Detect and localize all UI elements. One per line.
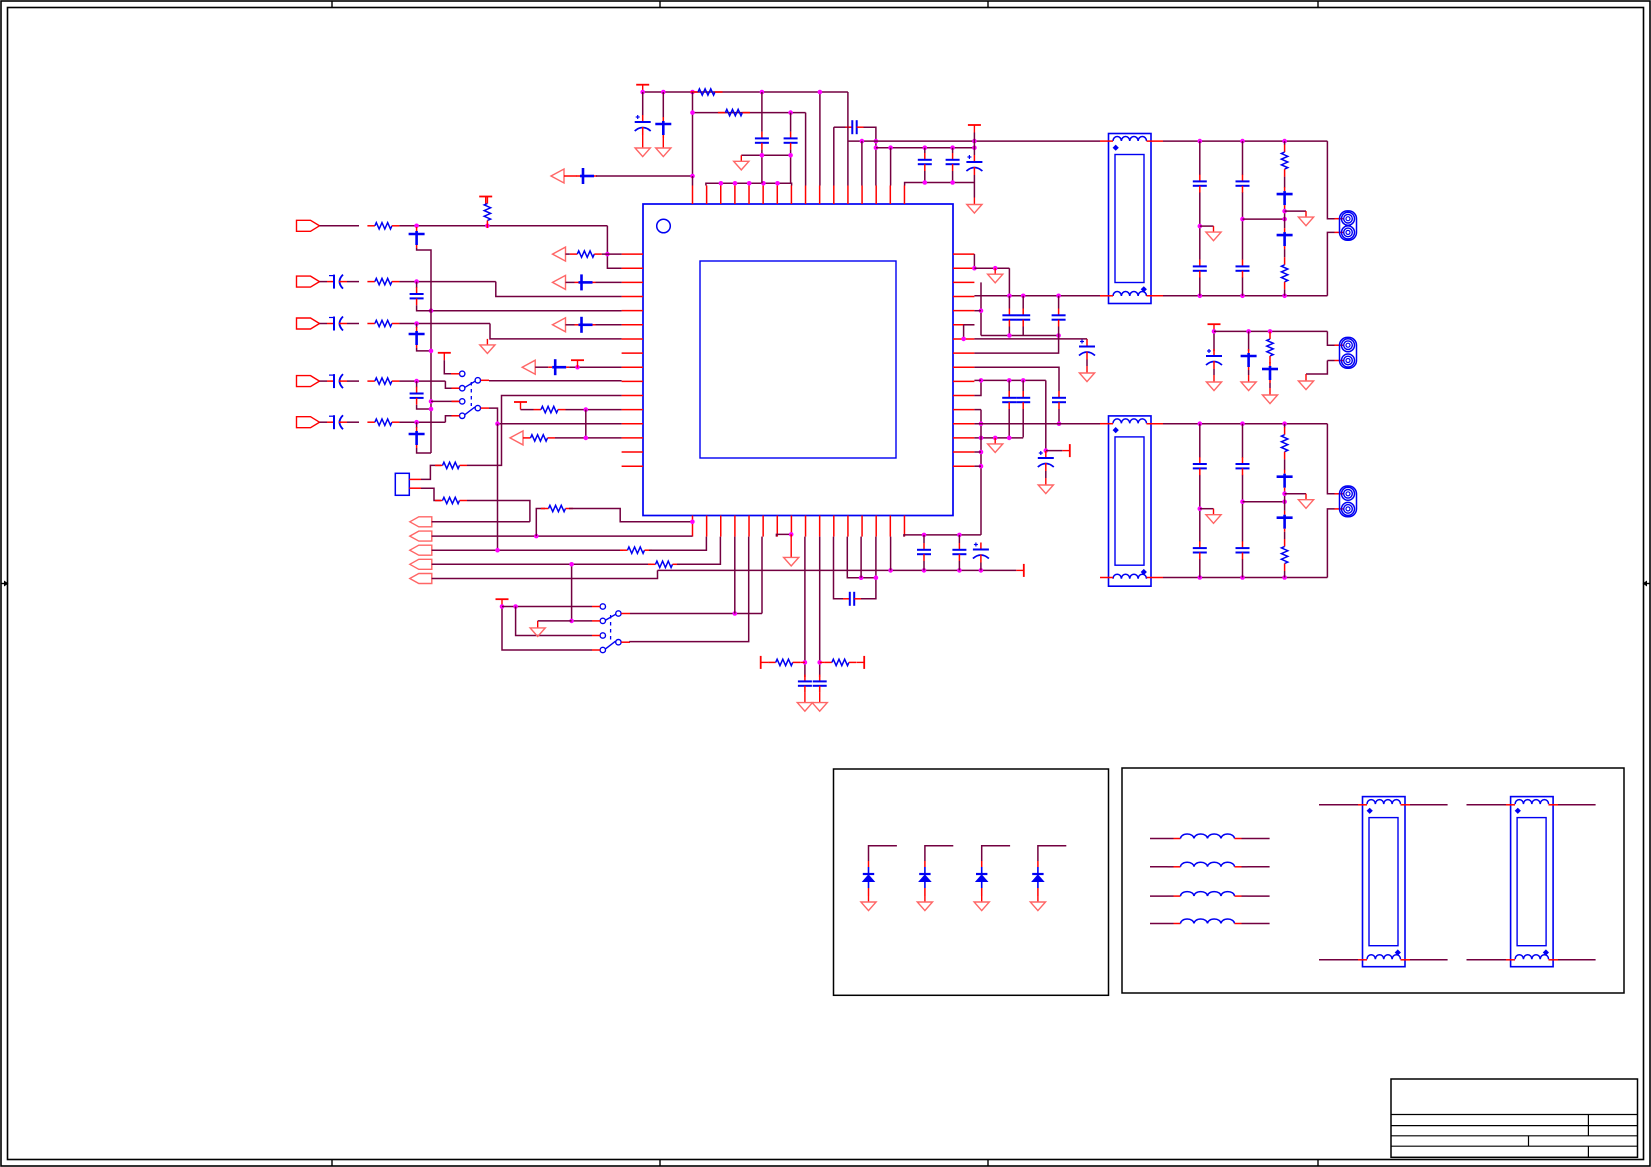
border zone tick (331, 1, 333, 8)
capacitor CT3 (1052, 309, 1066, 327)
ground k1R (988, 268, 1003, 283)
capacitor CR1 (917, 543, 931, 561)
junction (1056, 333, 1061, 338)
wire (790, 113, 792, 132)
wire (1008, 409, 1010, 437)
electrolytic capacitor CM1 (1206, 349, 1222, 369)
wire k4R (974, 310, 981, 312)
junction (788, 153, 793, 158)
junction (818, 90, 823, 95)
wire LN2 bottom rail (1163, 577, 1327, 579)
junction (1246, 329, 1251, 334)
junction (888, 568, 893, 573)
junction (1240, 139, 1245, 144)
wire (819, 91, 821, 93)
SW1 contact2 lead (452, 387, 460, 389)
wire mid rail (1214, 330, 1327, 332)
capacitor CH1 (843, 592, 861, 606)
capacitor LN1C2 (1277, 187, 1293, 208)
wire SW2 contact1 (502, 606, 592, 608)
power bar SW2 (496, 599, 509, 607)
power bar A4 (571, 360, 584, 368)
wire H10 (981, 335, 1059, 337)
wire row1 to pin 2 (607, 226, 621, 268)
wire row5 cont (399, 421, 445, 423)
wire Y1 upper (421, 465, 441, 479)
wire pin-49 column (692, 92, 694, 176)
junction (874, 139, 879, 144)
wire k12R to T2 (974, 423, 1100, 425)
junction (979, 308, 984, 313)
connector P5 (297, 417, 320, 428)
wire row3 (320, 323, 328, 325)
ground CE-R1 (1079, 366, 1094, 382)
wire row3 to pin 7 (490, 324, 622, 339)
capacitor CV1 (798, 675, 812, 693)
resistor R-top1 (691, 89, 723, 95)
wire pin-53 column (833, 127, 835, 185)
wire (1269, 330, 1271, 332)
wire (1058, 327, 1060, 336)
connector arrow A3 (553, 318, 566, 332)
wire LN1 branch C (1284, 249, 1286, 257)
junction (993, 266, 998, 271)
T1 pin top-right (1147, 140, 1164, 142)
wire H2 (741, 154, 790, 156)
RCA jack mid (1340, 337, 1357, 368)
wire k10B (834, 537, 844, 599)
wire (1008, 296, 1010, 309)
SW2 common2 lead (621, 641, 630, 643)
SW2 contact3 lead (592, 635, 600, 637)
wire k1R net (974, 267, 1009, 269)
wire (761, 150, 763, 184)
wire (347, 421, 359, 423)
wire LN1 branch B mid (1242, 192, 1244, 260)
ground mid jack (1298, 374, 1313, 390)
power bar VREF1 (761, 656, 769, 669)
resistor RV2 (824, 659, 856, 665)
power bar ecap2 (1062, 444, 1070, 457)
junction (1007, 436, 1012, 441)
wire (417, 405, 431, 409)
junction (993, 436, 998, 441)
transformer T2 (1109, 416, 1152, 586)
wire LN1 branch A mid (1199, 192, 1201, 260)
wire SW1 out2 to pin 13 (489, 408, 622, 424)
junction (747, 181, 752, 186)
junction (584, 407, 589, 412)
diode D2 anode lead (924, 861, 926, 867)
wire LN1 to jack (1327, 232, 1334, 295)
junction (719, 181, 724, 186)
capacitor LN2A2 (1193, 541, 1207, 559)
capacitor LN1A2 (1193, 260, 1207, 278)
wire A6 to pin 48 (596, 175, 693, 177)
border zone tick (1317, 1, 1319, 8)
electrolytic capacitor C-tl1 (635, 115, 651, 135)
diode D3 anode lead (981, 861, 983, 867)
diode D2 cathode lead (924, 888, 926, 896)
wire (923, 561, 925, 570)
wire (980, 563, 982, 571)
junction (1021, 378, 1026, 383)
junction (1282, 209, 1287, 214)
diode D2 (919, 867, 930, 888)
FB2 leads (1150, 866, 1168, 868)
junction (1007, 294, 1012, 299)
wire W4 to transformer T1 (848, 140, 1100, 142)
capacitor LN1C3 (1277, 228, 1293, 249)
wire B1 line (432, 521, 530, 523)
wire B3 line (432, 549, 623, 551)
junction (1282, 421, 1287, 426)
wire LN2 top rail (1163, 423, 1327, 425)
ground CV2 (812, 693, 827, 712)
junction (789, 532, 794, 537)
wire H8 AGND rail (658, 569, 1017, 571)
junction (859, 575, 864, 580)
wire (1008, 380, 1010, 391)
wire to pin 11 (467, 396, 622, 466)
capacitor C-a6 (576, 168, 597, 184)
wire SW2 contact3 (516, 607, 592, 636)
junction (1057, 421, 1062, 426)
junction (661, 90, 666, 95)
electrolytic capacitor CE4 (327, 374, 347, 388)
border zone arrow left (1, 583, 8, 585)
junction (575, 365, 580, 370)
wire (347, 281, 359, 283)
connector arrow A6 (551, 169, 564, 183)
wire k5R drop (963, 325, 965, 339)
junction (923, 180, 928, 185)
connector arrow A1 (553, 247, 566, 261)
wire (974, 409, 981, 411)
FB3 leads (1150, 895, 1168, 897)
wire row5 (320, 421, 328, 423)
junction (1056, 294, 1061, 299)
capacitor CR2 (952, 543, 966, 561)
wire (1058, 409, 1060, 424)
wire k14R (974, 451, 981, 453)
wire SW1 out1 to pin 10 (489, 380, 622, 382)
resistor R4 (367, 378, 399, 384)
junction (513, 604, 518, 609)
T2 pin bottom-right (1147, 577, 1164, 579)
junction (605, 252, 610, 257)
junction (860, 139, 865, 144)
SW2 contact4 lead (592, 649, 600, 651)
wire (416, 422, 418, 428)
connector arrow A4 (522, 360, 535, 374)
resistor R2 (367, 278, 399, 284)
resistor RB1 (541, 505, 573, 511)
SW1 common2 lead (481, 407, 489, 409)
wire gnd tap (538, 620, 572, 622)
connector B3 (410, 545, 432, 555)
wire row3 cont (399, 323, 490, 325)
U1 pin-1 marker (657, 219, 671, 233)
connector B2 (410, 531, 432, 541)
wire LN2 branch B (1242, 424, 1244, 458)
resistor LN1C4 (1281, 257, 1287, 289)
capacitor C-tr3 (946, 153, 960, 171)
capacitor C2b (410, 287, 424, 305)
capacitor C4b (410, 387, 424, 405)
wire (952, 148, 954, 153)
T2 pin top-right (1147, 423, 1164, 425)
connector B4 (410, 559, 432, 569)
wire LN2 branch C (1284, 532, 1286, 539)
LN1 jack stub (1335, 218, 1345, 220)
wire k0R-k1R (973, 254, 975, 268)
T4 pin bottom-left (1467, 959, 1507, 961)
junction (429, 399, 434, 404)
capacitor CA4 (548, 359, 569, 375)
title block (1391, 1079, 1638, 1157)
T3 pin top-left (1319, 804, 1358, 806)
junction (1282, 499, 1287, 504)
junction (690, 520, 695, 525)
capacitor LN2B2 (1236, 541, 1250, 559)
power bar row1 (479, 197, 492, 205)
wire row1 (320, 225, 360, 227)
wire LN1 branch C (1284, 141, 1286, 145)
wire row4 to switch (445, 381, 459, 388)
ground H6 (967, 198, 982, 214)
wire (566, 281, 575, 283)
junction (874, 575, 879, 580)
wire diode D2 feed (925, 846, 953, 861)
wire (1213, 369, 1215, 375)
junction (803, 660, 808, 665)
junction (788, 110, 793, 115)
wire mid gnd (1306, 361, 1327, 375)
electrolytic capacitor CR3 (973, 543, 989, 563)
wire k15R (974, 465, 981, 467)
wire (958, 561, 960, 570)
wire (566, 253, 570, 255)
ground D3 (974, 896, 989, 911)
junction (690, 90, 695, 95)
RV2 tail (820, 661, 825, 663)
capacitor CT2 (1016, 309, 1030, 327)
capacitor CM2 (1241, 349, 1257, 370)
electrolytic capacitor CE3 (327, 317, 347, 331)
wire LN2 branch C (1284, 424, 1286, 428)
junction (500, 604, 505, 609)
junction (1021, 294, 1026, 299)
junction (1282, 217, 1287, 222)
wire W2 (693, 112, 806, 114)
capacitor LN1B2 (1236, 260, 1250, 278)
wire LN1 branch A (1199, 141, 1201, 175)
inductor FB2 (1168, 862, 1248, 867)
wire k12B (860, 537, 862, 578)
junction (760, 90, 765, 95)
switch SW2 (600, 604, 621, 653)
capacitor CA2 (575, 274, 596, 290)
SW1 contact3 lead (452, 400, 460, 402)
wire LN2 branch B mid (1242, 475, 1244, 542)
wire k11R column to H7 (980, 410, 982, 535)
wire SW2 contact2 (572, 564, 592, 621)
wire LN2 branch B low (1242, 559, 1244, 578)
ground D1 (861, 896, 876, 911)
resistor LN2C1 (1281, 427, 1287, 459)
wire H6 (905, 183, 975, 186)
capacitor LN1A1 (1193, 175, 1207, 193)
wire common2 chain down (497, 424, 499, 551)
resistor RA5 (523, 435, 555, 441)
wire LN2 B-C link (1243, 501, 1285, 503)
junction (874, 145, 879, 150)
wire (1248, 370, 1250, 375)
mid jack stubs (1335, 344, 1345, 346)
wire to pin 22 (761, 537, 763, 614)
power bar VREF2 (857, 656, 865, 669)
wire LN2 branch A low (1199, 559, 1201, 578)
wire (952, 171, 954, 183)
wire to pin 20 (734, 537, 736, 614)
power bar mid (1208, 324, 1221, 332)
wire Y1 lower (421, 488, 441, 500)
junction (733, 611, 738, 616)
wire k6R line (974, 338, 1087, 340)
wire (416, 324, 418, 329)
wire to pin 19 (677, 537, 720, 565)
T1 pin top-left (1100, 140, 1113, 142)
T2 pin bottom-left (1100, 577, 1113, 579)
ground CM2 (1241, 375, 1256, 391)
junction (979, 464, 984, 469)
junction (429, 349, 434, 354)
capacitor C-tr2 (918, 153, 932, 171)
wire to mid jack (1327, 331, 1334, 345)
wire (416, 381, 418, 387)
wire LN2 branch A mid (1199, 475, 1201, 542)
wire (662, 92, 664, 118)
diode D3 (976, 867, 987, 888)
capacitor LN2C3 (1277, 511, 1293, 532)
junction (569, 619, 574, 624)
capacitor C5b (409, 427, 425, 448)
wire LN2 branch C (1284, 571, 1286, 578)
wire pin-50 column (864, 127, 876, 185)
wire (1200, 225, 1214, 227)
resistor RY1 (435, 462, 467, 468)
wire LN1 bottom rail (1163, 295, 1327, 297)
junction (429, 308, 434, 313)
capacitor CC2 (1016, 391, 1030, 409)
wire (861, 141, 863, 185)
ground CM3 (1262, 388, 1277, 404)
SW2 contact2 lead (592, 620, 600, 622)
junction (950, 145, 955, 150)
wire (790, 150, 792, 184)
electrolytic capacitor CE-R1 (1079, 340, 1095, 360)
junction (1044, 448, 1049, 453)
junction (979, 568, 984, 573)
wire B2 line to pin 17 (432, 535, 693, 537)
wire A5 to pin 14 (555, 437, 622, 439)
junction (922, 533, 927, 538)
diode D4 anode lead (1037, 861, 1039, 867)
junction (1007, 378, 1012, 383)
wire bus to pin 5 (431, 310, 622, 312)
ground D4 (1030, 896, 1045, 911)
diode D1 anode lead (868, 861, 870, 867)
resistor R1v (484, 196, 490, 228)
ground D2 (917, 896, 932, 911)
diode D4 cathode lead (1037, 888, 1039, 896)
wire W2 drop to pin 57 (805, 113, 807, 186)
electrolytic capacitor CE-R2 (1038, 451, 1054, 471)
resistor LN2C4 (1281, 539, 1287, 571)
wire (566, 324, 575, 326)
T3 pin bottom-right (1401, 959, 1411, 961)
wire (417, 348, 431, 351)
ground below C-tl1 (635, 135, 650, 157)
ground CV1 (797, 693, 812, 712)
junction (1198, 139, 1203, 144)
switch SW1 (460, 371, 481, 418)
junction (1282, 294, 1287, 299)
wire (767, 661, 769, 663)
wire LN2 branch C (1284, 459, 1286, 470)
wire row4 (320, 380, 328, 382)
wire k6B-k7B join (776, 534, 791, 536)
junction (1268, 329, 1273, 334)
electrolytic capacitor C-tr4 (966, 155, 982, 175)
ground below C-tl2 (656, 138, 671, 157)
op-amp U1 body (643, 204, 953, 516)
wire (1248, 331, 1250, 351)
wire LN2 branch A (1199, 424, 1201, 458)
resistor LN1C1 (1281, 145, 1287, 177)
wire diode D1 feed (869, 846, 897, 861)
junction (923, 145, 928, 150)
junction (414, 321, 419, 326)
junction (1282, 491, 1287, 496)
wire B4 line (432, 563, 651, 565)
junction (1282, 575, 1287, 580)
T3 pin top-right (1401, 804, 1411, 806)
capacitor CV2 (813, 675, 827, 693)
wire (1022, 380, 1024, 391)
wire bus to switch c3 (431, 400, 460, 402)
junction (979, 421, 984, 426)
junction (414, 379, 419, 384)
wire LN2 to jack (1327, 424, 1334, 494)
junction (961, 337, 966, 342)
inductor FB4 (1168, 919, 1248, 924)
junction (1198, 294, 1203, 299)
capacitor CM3 (1262, 362, 1278, 383)
wire LN1 top rail (1163, 140, 1327, 142)
wire (923, 535, 925, 543)
wire (1022, 327, 1024, 336)
wire (890, 148, 892, 186)
wire (973, 183, 975, 198)
diode D1 (863, 867, 874, 888)
resistor R3 (367, 320, 399, 326)
wire row2 cont (399, 281, 495, 283)
wire (1046, 450, 1063, 452)
ground H2 (734, 155, 749, 170)
junction (429, 407, 434, 412)
